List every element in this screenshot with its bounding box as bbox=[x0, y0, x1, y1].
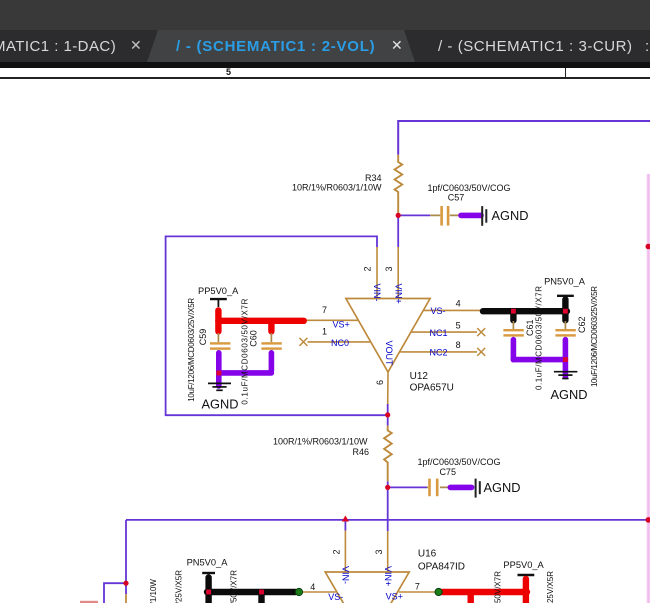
wire R46 bottom bbox=[387, 481, 389, 531]
svg-text:VIN+: VIN+ bbox=[394, 284, 404, 304]
tab bar bbox=[0, 0, 650, 62]
svg-text:NC1: NC1 bbox=[430, 328, 448, 338]
wire pink right edge bbox=[646, 174, 650, 603]
wire U16 pin2 stub bbox=[344, 520, 346, 531]
svg-text:VOUT: VOUT bbox=[384, 341, 394, 367]
U12 pin 2 bbox=[376, 247, 378, 299]
svg-text:3: 3 bbox=[384, 266, 394, 271]
svg-text:C62: C62 bbox=[577, 316, 587, 333]
sheet zone band top line bbox=[0, 62, 650, 68]
svg-text:VIN+: VIN+ bbox=[383, 566, 393, 586]
svg-text:0.1uF/MCD0603/50V/X7R: 0.1uF/MCD0603/50V/X7R bbox=[535, 286, 544, 390]
power port PP5V0_A (U12) bbox=[210, 299, 227, 307]
ground symbol AGND (left) bbox=[208, 383, 231, 390]
wire U12 output down bbox=[387, 404, 389, 426]
junction dot long net / U16 pin2 bbox=[342, 516, 349, 522]
capacitor C57 bbox=[430, 206, 458, 226]
svg-text:VS+: VS+ bbox=[333, 320, 350, 330]
power port PN5V0_A (U16) bbox=[202, 573, 215, 576]
svg-text:6: 6 bbox=[375, 380, 385, 385]
svg-text:7: 7 bbox=[322, 305, 327, 315]
U12 pin 3 bbox=[397, 247, 399, 299]
junction dot pink line lower bbox=[646, 517, 650, 523]
thick black net PN5V0_A (U12) bbox=[483, 300, 567, 321]
wire R34 junction to C57 bbox=[398, 214, 430, 216]
junction square purple right bbox=[563, 357, 568, 362]
U16 pin 7 bbox=[399, 591, 436, 593]
svg-text:1pf/C0603/50V/COG: 1pf/C0603/50V/COG bbox=[417, 457, 500, 467]
svg-text:10uF/1206/MCD0603/25V/X5R: 10uF/1206/MCD0603/25V/X5R bbox=[187, 298, 196, 402]
svg-text:VS-: VS- bbox=[328, 592, 343, 602]
svg-text:PN5V0_A: PN5V0_A bbox=[544, 277, 586, 287]
junction dot left drop bbox=[123, 581, 128, 586]
thick red net PP5V0_A (U16) bbox=[442, 579, 527, 603]
thick black net PN5V0_A (U16) bbox=[207, 578, 295, 603]
svg-text:PP5V0_A: PP5V0_A bbox=[198, 286, 239, 296]
resistor R34 bbox=[395, 155, 403, 216]
active tab label bbox=[176, 38, 375, 55]
green dot U16 pin7 bbox=[435, 588, 442, 595]
resistor R46 bbox=[384, 426, 392, 482]
svg-text:C57: C57 bbox=[448, 193, 465, 203]
svg-text:5: 5 bbox=[456, 321, 461, 331]
svg-text:AGND: AGND bbox=[484, 480, 521, 495]
wire left drop of long net bbox=[125, 520, 127, 583]
junction square purple left bbox=[217, 371, 222, 376]
no-ERC X pin8 bbox=[477, 348, 485, 356]
svg-text:10R/1%/R0603/1/10W: 10R/1%/R0603/1/10W bbox=[292, 183, 382, 193]
capacitor C60 bbox=[261, 333, 281, 353]
junction dot U12 output/feedback bbox=[385, 412, 390, 417]
svg-text:R34: R34 bbox=[365, 173, 382, 183]
svg-text:0.1uF/MCD0603/50V/X7R: 0.1uF/MCD0603/50V/X7R bbox=[230, 570, 239, 603]
tab 1 label bbox=[0, 38, 116, 55]
thick wire C75 to AGND bbox=[450, 485, 471, 491]
U12 pin 8 bbox=[400, 351, 477, 353]
svg-text:OPA657U: OPA657U bbox=[410, 382, 454, 393]
svg-text:100R/1%/R0603/1/10W: 100R/1%/R0603/1/10W bbox=[273, 437, 368, 447]
svg-text:0.1uF/MCD0603/50V/X7R: 0.1uF/MCD0603/50V/X7R bbox=[241, 298, 250, 404]
junction square U16 black bar 2 bbox=[259, 590, 264, 595]
svg-text:U16: U16 bbox=[418, 549, 437, 560]
svg-text:C61: C61 bbox=[525, 319, 535, 336]
svg-text:C75: C75 bbox=[439, 467, 456, 477]
capacitor C62 bbox=[555, 321, 575, 340]
active tab close bbox=[391, 37, 403, 54]
tab 1 close bbox=[130, 37, 142, 54]
zone tick bbox=[565, 68, 567, 78]
svg-text:3: 3 bbox=[374, 549, 384, 554]
svg-text:2: 2 bbox=[332, 549, 342, 554]
capacitor C61 bbox=[503, 321, 523, 340]
svg-text:OPA847ID: OPA847ID bbox=[418, 562, 465, 573]
power port PP5V0_A (U16) bbox=[518, 575, 535, 578]
svg-text:1: 1 bbox=[322, 326, 327, 336]
wire R34 bottom to U12 pin3 bbox=[397, 215, 399, 247]
junction square black bar 2 bbox=[563, 309, 568, 314]
power port PN5V0_A (U12) bbox=[557, 296, 574, 299]
svg-text:AGND: AGND bbox=[202, 397, 239, 412]
svg-text:10uF/1206/MCD0603/25V/X5R: 10uF/1206/MCD0603/25V/X5R bbox=[590, 286, 599, 387]
U12 pin 7 bbox=[307, 319, 358, 321]
U12 pin 4 bbox=[424, 309, 480, 311]
svg-text:PP5V0_A: PP5V0_A bbox=[503, 560, 544, 570]
svg-text:10uF/1206/MCD0603/25V/X5R: 10uF/1206/MCD0603/25V/X5R bbox=[175, 570, 184, 603]
svg-text:0.1uF/MCD0603/50V/X7R: 0.1uF/MCD0603/50V/X7R bbox=[494, 571, 503, 603]
svg-text:C60: C60 bbox=[248, 330, 258, 347]
wire below junction x126 bbox=[125, 583, 127, 594]
svg-text:NC0: NC0 bbox=[331, 338, 349, 348]
wire feedback loop U12 bbox=[166, 236, 388, 415]
junction square U16 black bar 1 bbox=[206, 590, 211, 595]
U12 pin 6 bbox=[387, 372, 389, 404]
red mark bottom left corner bbox=[80, 601, 98, 603]
svg-text:8: 8 bbox=[456, 340, 461, 350]
thick purple net AGND (C61 C62) bbox=[513, 340, 565, 377]
thick purple net AGND (C59 C60) bbox=[219, 353, 272, 386]
op-amp U12 bbox=[346, 299, 430, 373]
no-ERC X pin1 bbox=[299, 338, 307, 346]
pin U16-3 bbox=[387, 531, 389, 572]
svg-text:VIN-: VIN- bbox=[372, 284, 382, 302]
U12 pin 1 bbox=[308, 341, 371, 343]
active tab background bbox=[147, 30, 415, 62]
wire long horizontal net bbox=[126, 519, 650, 521]
tab 3 label bbox=[438, 38, 633, 55]
capacitor C75 bbox=[427, 479, 448, 497]
svg-text:VIN-: VIN- bbox=[341, 566, 351, 584]
svg-text:U12: U12 bbox=[410, 371, 429, 382]
svg-text:10uF/1206/MCD0603/25V/X5R: 10uF/1206/MCD0603/25V/X5R bbox=[546, 571, 555, 603]
svg-text:R46: R46 bbox=[352, 447, 369, 457]
svg-text:1pf/C0603/50V/COG: 1pf/C0603/50V/COG bbox=[427, 183, 510, 193]
svg-text:VS+: VS+ bbox=[386, 592, 403, 602]
green dot U16 pin4 bbox=[295, 588, 302, 595]
junction dot R46/C75 bbox=[385, 485, 390, 490]
ground symbol AGND (right) bbox=[554, 372, 578, 379]
svg-text:PN5V0_A: PN5V0_A bbox=[187, 558, 229, 568]
wire C75 branch bbox=[388, 486, 427, 488]
svg-text:100R/1%/R0603/1/10W: 100R/1%/R0603/1/10W bbox=[149, 579, 158, 603]
svg-text:4: 4 bbox=[456, 299, 461, 309]
junction dot R34/C57 bbox=[396, 213, 401, 218]
op-amp U16 bbox=[325, 572, 409, 603]
AGND power port (C75) bbox=[476, 479, 480, 498]
capacitor C59 bbox=[210, 333, 230, 353]
thick wire C57 to AGND bbox=[461, 213, 481, 219]
AGND power port (C57) bbox=[482, 206, 486, 226]
wire branch to x104 bbox=[104, 583, 126, 603]
pin U16-2 bbox=[344, 531, 346, 572]
pin below x126 bbox=[125, 594, 127, 603]
svg-text:AGND: AGND bbox=[492, 208, 529, 223]
svg-text:4: 4 bbox=[310, 582, 315, 592]
svg-text:7: 7 bbox=[415, 582, 420, 592]
svg-text:C59: C59 bbox=[198, 329, 208, 346]
thick red net PP5V0_A (U12) bbox=[218, 311, 303, 332]
no-ERC X pin5 bbox=[477, 328, 485, 336]
svg-text:NC2: NC2 bbox=[430, 348, 448, 358]
tab 4 partial bbox=[645, 38, 650, 55]
svg-text:AGND: AGND bbox=[551, 387, 588, 402]
wire top net to right edge bbox=[398, 121, 650, 155]
junction square black bar 1 bbox=[511, 309, 516, 314]
svg-text:VS-: VS- bbox=[431, 306, 446, 316]
U12 pin 5 bbox=[411, 331, 477, 333]
U16 pin 4 bbox=[302, 591, 336, 593]
zone number 5 bbox=[226, 67, 231, 77]
sheet zone band bottom line bbox=[0, 77, 650, 79]
svg-text:2: 2 bbox=[363, 266, 373, 271]
junction dot pink line upper bbox=[646, 244, 650, 250]
